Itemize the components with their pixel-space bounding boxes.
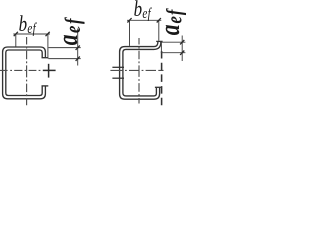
- left b_ef / a_ef connector extension right: [47, 34, 49, 59]
- svg-text:bef: bef: [134, 0, 153, 22]
- left channel outer contour: [3, 47, 46, 99]
- svg-text:aef: aef: [54, 16, 86, 45]
- left top lip end cap: [42, 57, 49, 59]
- right b_ef extension right: [158, 20, 160, 41]
- right heavy dashed line (former lip plane): [161, 51, 163, 106]
- right b_ef tick left: [127, 18, 131, 22]
- right a_ef tick top: [180, 40, 184, 44]
- right channel outer contour (up-lip, top flange, web, bottom flange, bottom lip): [120, 42, 160, 99]
- right b_ef dimension line: [127, 19, 161, 21]
- left a_ef tick bottom: [76, 57, 80, 61]
- left b_ef extension line left: [15, 34, 17, 47]
- right vertical centerline: [138, 38, 140, 104]
- left bottom lip end cap: [42, 85, 49, 87]
- right b_ef tick right: [157, 18, 161, 22]
- right b_ef extension left: [129, 20, 131, 46]
- right a_ef dimension line: [181, 36, 183, 62]
- right a_ef connector: [160, 42, 162, 53]
- left b_ef tick right: [46, 32, 50, 36]
- right bottom lip end cap: [155, 86, 161, 88]
- left a_ef dimension line: [77, 29, 79, 66]
- right web effective-zone boundary tick (lower): [112, 77, 124, 79]
- right top lip end cap: [156, 40, 162, 42]
- left channel inner contour: [6, 50, 42, 96]
- left a_ef extension bottom: [48, 58, 80, 60]
- right a_ef tick bottom: [180, 51, 184, 55]
- right a_ef extension bottom: [161, 52, 186, 54]
- left b_ef tick left: [14, 32, 18, 36]
- right channel inner contour: [123, 42, 161, 96]
- left vertical centerline: [26, 37, 28, 105]
- left horizontal centerline: [0, 69, 40, 71]
- left a_ef extension top: [48, 47, 80, 49]
- svg-text:bef: bef: [19, 12, 38, 37]
- right horizontal centerline: [110, 69, 163, 71]
- left a_ef tick top: [76, 46, 80, 50]
- right a_ef extension top: [160, 41, 185, 43]
- left b_ef dimension line: [13, 33, 50, 35]
- right web effective-zone boundary tick (upper): [112, 66, 124, 68]
- svg-text:aef: aef: [155, 7, 187, 35]
- left centroid cross: [43, 69, 56, 71]
